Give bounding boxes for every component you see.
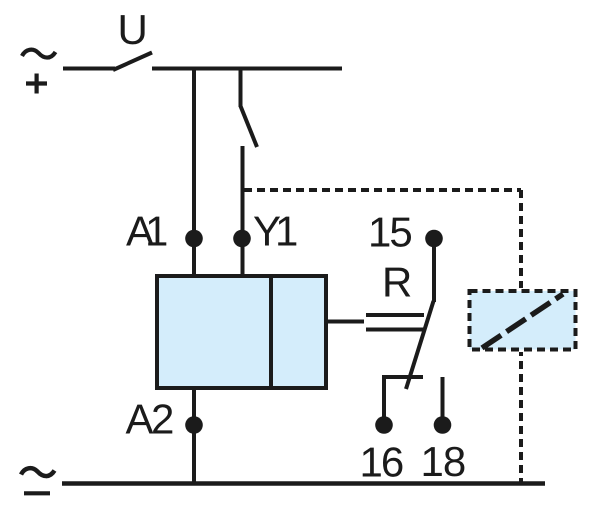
label A1 bbox=[126, 217, 166, 246]
control switch U (open contact in top rail) bbox=[63, 53, 152, 71]
node 15 bbox=[425, 230, 443, 248]
node Y1 bbox=[233, 230, 251, 248]
node 16 bbox=[375, 416, 393, 434]
label 15 bbox=[371, 218, 411, 247]
label 18 bbox=[424, 447, 465, 477]
dashed diagonal of output contact bbox=[482, 294, 563, 348]
terminal 16 wire bbox=[384, 377, 423, 418]
terminal 18 wire bbox=[441, 377, 445, 418]
wire coil to actuator bbox=[328, 320, 364, 324]
supply polarity symbol bottom-left (~ over -) bbox=[21, 468, 55, 493]
relay coil box bbox=[157, 276, 326, 388]
node 18 bbox=[434, 416, 452, 434]
label R bbox=[385, 268, 410, 297]
bottom supply rail wire bbox=[62, 481, 545, 486]
wire A1 (top rail to coil) bbox=[192, 67, 196, 277]
auxiliary switch in Y1 branch bbox=[241, 67, 258, 148]
output relay contact (dashed box) bbox=[470, 291, 576, 350]
supply polarity symbol top-left (~ over +) bbox=[22, 50, 56, 94]
label 16 bbox=[363, 447, 403, 477]
top supply rail wire bbox=[152, 67, 342, 71]
dashed control link from Y1 wire to output contact bbox=[244, 190, 521, 482]
contact blade 15 bbox=[406, 301, 434, 389]
wire from node 15 bbox=[432, 246, 436, 302]
node A2 bbox=[185, 416, 203, 434]
node A1 bbox=[185, 230, 203, 248]
wire Y1 (switch to coil) bbox=[241, 146, 245, 276]
actuator linkage (delay mechanism) bbox=[366, 315, 424, 330]
label A2 bbox=[126, 404, 173, 433]
label Y1 bbox=[254, 217, 296, 246]
wire A2 (coil to bottom rail) bbox=[192, 388, 196, 483]
label U bbox=[121, 15, 145, 44]
